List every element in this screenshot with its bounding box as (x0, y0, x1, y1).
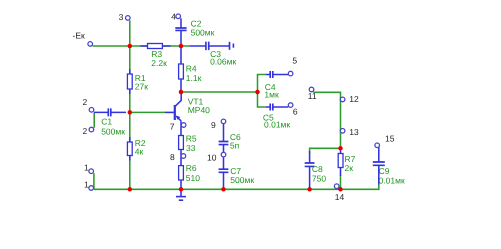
capacitor C3 0.06mk and output jack (190, 42, 233, 51)
svg-text:510: 510 (186, 173, 200, 183)
svg-text:-Ек: -Ек (73, 31, 86, 41)
svg-text:12: 12 (349, 94, 359, 104)
pin 3 (126, 16, 131, 21)
pin 6 (288, 103, 293, 108)
transistor VT1 MP40 (165, 92, 181, 121)
svg-text:0.06мк: 0.06мк (210, 57, 236, 67)
wire base node to transistor (130, 111, 165, 113)
capacitor C2 500mk (175, 18, 186, 46)
svg-text:0.01мк: 0.01мк (264, 120, 290, 130)
node base (128, 110, 133, 115)
wire bottom rail (94, 185, 379, 190)
svg-text:5п: 5п (230, 141, 240, 151)
node rail/R7 (338, 187, 343, 192)
pin 13 (340, 129, 345, 134)
svg-text:C1: C1 (101, 117, 112, 127)
resistor R4 1.1k (179, 47, 184, 92)
svg-text:27к: 27к (135, 82, 148, 92)
wire C8 branch (310, 148, 341, 153)
svg-text:750: 750 (312, 173, 326, 183)
node collector (179, 90, 184, 95)
svg-text:4к: 4к (135, 147, 144, 157)
capacitor C7 500mk (219, 169, 229, 189)
wire collector node (181, 91, 258, 93)
pin -Ek (88, 42, 93, 47)
pin 4 (176, 14, 181, 19)
svg-text:7: 7 (170, 121, 175, 131)
capacitor C1 500mk (94, 108, 126, 116)
svg-text:0.01мк: 0.01мк (379, 176, 405, 186)
capacitor C6 5p (219, 124, 229, 170)
capacitor C5 0.01mk (266, 104, 288, 111)
svg-text:1: 1 (84, 163, 89, 173)
node rail/C2/R4 (179, 44, 184, 49)
svg-text:2.2к: 2.2к (151, 58, 167, 68)
pin 9 (221, 119, 226, 124)
wire terminal 1 stub (93, 173, 95, 189)
resistor R1 27k (127, 69, 132, 94)
svg-text:500мк: 500мк (191, 28, 215, 38)
svg-text:10: 10 (207, 153, 217, 163)
wire vertical from terminal 3 down to bottom rail (129, 21, 131, 190)
capacitor C4 1mk (266, 71, 288, 78)
svg-text:6: 6 (293, 107, 298, 117)
resistor R5 33 (179, 121, 184, 165)
wire C4/C5 branch (258, 75, 267, 108)
node rail/C8 (307, 187, 312, 192)
svg-text:8: 8 (170, 152, 175, 162)
pin 2 lower (89, 127, 94, 132)
capacitor C9 0.01mk (373, 147, 385, 184)
pin 10 (221, 152, 226, 157)
svg-text:2к: 2к (345, 163, 354, 173)
pin terminals (88, 14, 380, 190)
svg-text:11: 11 (308, 91, 317, 101)
resistor R7 2k (338, 148, 343, 176)
svg-text:500мк: 500мк (101, 126, 125, 136)
svg-text:3: 3 (119, 12, 124, 22)
svg-text:2: 2 (83, 126, 88, 136)
wire terminal 11 to 12-13 column (313, 92, 340, 148)
node rail/R6 ground (179, 187, 184, 192)
resistor R2 4k (127, 137, 132, 161)
svg-text:R4: R4 (186, 64, 197, 74)
node C4/C5 split (255, 90, 260, 95)
pin 15 (375, 143, 380, 148)
node rail/R2 (128, 187, 133, 192)
svg-text:33: 33 (186, 143, 196, 153)
pin 14 (334, 184, 339, 189)
pin 7 (181, 123, 186, 128)
resistor R6 510 (179, 166, 184, 190)
ground (176, 189, 186, 200)
pin 8 (181, 154, 186, 159)
svg-text:9: 9 (211, 120, 216, 130)
capacitor C8 750 (305, 151, 315, 189)
svg-text:1мк: 1мк (264, 89, 279, 99)
node C8/R7 top (338, 146, 343, 151)
node rail/C7 (221, 187, 226, 192)
svg-text:2: 2 (83, 97, 88, 107)
wire top rail -Ek to C3 (93, 45, 191, 47)
svg-text:14: 14 (335, 192, 345, 202)
wire terminal 2 stub (93, 112, 95, 127)
svg-text:1: 1 (84, 180, 89, 190)
svg-text:1.1к: 1.1к (186, 73, 202, 83)
pin 12 (340, 97, 345, 102)
svg-text:13: 13 (349, 127, 359, 137)
pin 11 (309, 87, 314, 92)
pin 1 lower (89, 186, 94, 191)
svg-text:15: 15 (385, 133, 395, 143)
resistor R3 2.2k (140, 44, 170, 49)
pin 5 (288, 71, 293, 76)
pin 2 upper (89, 108, 94, 113)
svg-text:R6: R6 (186, 163, 197, 173)
svg-text:500мк: 500мк (230, 175, 254, 185)
svg-text:MP40: MP40 (188, 105, 210, 115)
svg-text:5: 5 (292, 55, 297, 65)
svg-text:4: 4 (171, 12, 176, 22)
pin 1 upper (89, 169, 94, 174)
node rail/3 (128, 44, 133, 49)
